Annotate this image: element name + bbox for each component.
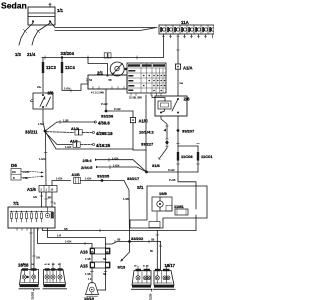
relay 2/6 bbox=[155, 96, 190, 116]
ref 2/5:4 line bbox=[83, 156, 147, 172]
connector 11C4 bbox=[61, 58, 76, 74]
connector fork 21/4 bbox=[27, 23, 50, 57]
connector strip A16 bbox=[80, 248, 110, 262]
svg-text:1-R: 1-R bbox=[57, 234, 61, 238]
svg-text:A16: A16 bbox=[80, 250, 88, 255]
svg-text:4L 58: 4L 58 bbox=[143, 266, 149, 268]
svg-text:33/205: 33/205 bbox=[97, 173, 110, 178]
connector strip A15 bbox=[80, 262, 110, 290]
svg-text:4/268:18: 4/268:18 bbox=[96, 131, 113, 136]
connector pair bridge on 33/204 bbox=[104, 53, 111, 58]
svg-text:11A: 11A bbox=[181, 20, 190, 25]
connector A1/C bbox=[130, 111, 148, 172]
svg-text:31/30: 31/30 bbox=[150, 293, 153, 300]
svg-text:SB: SB bbox=[151, 239, 155, 242]
svg-text:R: R bbox=[54, 203, 56, 206]
svg-text:33/207: 33/207 bbox=[182, 129, 195, 134]
svg-text:1-GN: 1-GN bbox=[65, 145, 71, 149]
svg-text:1.5R: 1.5R bbox=[63, 119, 69, 123]
wires 7/1 down to 18/18 bbox=[30, 228, 40, 269]
svg-text:SB: SB bbox=[117, 239, 121, 242]
fork ref 9/13 bbox=[118, 242, 130, 270]
svg-text:7/1: 7/1 bbox=[13, 201, 19, 206]
svg-text:31 58L 58R: 31 58L 58R bbox=[129, 97, 142, 100]
svg-text:D5: D5 bbox=[11, 163, 17, 168]
svg-text:4/39.8: 4/39.8 bbox=[98, 120, 110, 125]
svg-text:1-GN: 1-GN bbox=[64, 87, 70, 91]
svg-text:SB: SB bbox=[64, 227, 68, 231]
svg-text:Ga: Ga bbox=[180, 81, 184, 85]
svg-text:11C01: 11C01 bbox=[201, 154, 213, 159]
svg-text:1-GN: 1-GN bbox=[112, 156, 118, 160]
svg-text:SB: SB bbox=[103, 273, 107, 276]
svg-text:1-GN: 1-GN bbox=[56, 177, 62, 181]
svg-text:4 1 5 2 54B: 4 1 5 2 54B bbox=[91, 92, 104, 95]
relay 2/6 output to 33/207 bbox=[177, 116, 200, 146]
svg-text:9/13: 9/13 bbox=[118, 265, 127, 270]
branch ref A1/4 4/16:25 bbox=[45, 132, 111, 148]
branch ref A1/A 4/268:18 bbox=[47, 127, 114, 136]
svg-text:11M1: 11M1 bbox=[174, 204, 185, 209]
right feed wire A1/A bbox=[175, 34, 192, 96]
connector 33/227 bbox=[141, 139, 169, 160]
svg-text:GN: GN bbox=[33, 196, 37, 199]
svg-text:1-GN: 1-GN bbox=[65, 240, 71, 244]
svg-text:33/211: 33/211 bbox=[25, 130, 38, 135]
wire node 33/204 bbox=[42, 34, 164, 59]
svg-text:33/202: 33/202 bbox=[131, 236, 144, 241]
wire 11C4 to unit 2/1 bbox=[62, 73, 89, 92]
light switch knob 2/1 bbox=[110, 62, 127, 76]
svg-text:A1/A: A1/A bbox=[183, 66, 193, 71]
wires A1/6 to 7/1 bbox=[33, 192, 56, 207]
svg-text:33/204: 33/204 bbox=[61, 51, 75, 56]
relay 1/1 bbox=[28, 3, 64, 25]
svg-text:GN: GN bbox=[36, 257, 40, 260]
svg-text:33/208: 33/208 bbox=[101, 113, 114, 118]
branch ref 4/39.8 bbox=[45, 119, 110, 132]
connector 11C3 bbox=[42, 58, 57, 93]
svg-text:11C4: 11C4 bbox=[65, 65, 75, 70]
svg-text:19/9: 19/9 bbox=[159, 191, 168, 196]
svg-text:1-GN: 1-GN bbox=[39, 157, 45, 161]
svg-text:P-GR: P-GR bbox=[101, 102, 108, 106]
left lamp cluster 18/18 bbox=[18, 263, 67, 300]
relay 2/6 coil return to 31/6 bbox=[139, 116, 168, 139]
svg-text:33/217: 33/217 bbox=[127, 176, 140, 181]
title Sedan bbox=[1, 0, 27, 10]
svg-text:A15: A15 bbox=[80, 264, 88, 269]
unit 2/1 light switch bbox=[88, 58, 127, 95]
right lamp cluster 18/17 bbox=[132, 263, 176, 300]
wire table to relay 2/6 coil bbox=[152, 95, 165, 101]
svg-text:Sedan: Sedan bbox=[1, 0, 27, 10]
junction 33/217 bbox=[127, 171, 148, 181]
svg-text:2/1: 2/1 bbox=[97, 71, 104, 76]
svg-text:19/19: 19/19 bbox=[84, 296, 95, 300]
svg-text:31/6: 31/6 bbox=[152, 163, 161, 168]
svg-text:1/3: 1/3 bbox=[15, 52, 21, 57]
svg-text:2/44:5: 2/44:5 bbox=[81, 165, 93, 170]
connector 11C08 bbox=[177, 146, 194, 181]
lines from 7/1 to right bbox=[38, 227, 197, 248]
svg-text:1/1: 1/1 bbox=[57, 8, 64, 13]
svg-text:A1/C: A1/C bbox=[139, 119, 149, 124]
svg-text:1-GN: 1-GN bbox=[113, 164, 119, 168]
svg-text:33/227: 33/227 bbox=[141, 142, 154, 147]
svg-text:24+: 24+ bbox=[37, 85, 42, 89]
svg-text:RD: RD bbox=[12, 170, 16, 174]
line 33/205 bbox=[52, 173, 124, 185]
svg-text:1-SB: 1-SB bbox=[85, 273, 91, 276]
legend D5 bbox=[11, 163, 44, 180]
feed wires down to 18/17 bbox=[150, 231, 162, 271]
lamp cluster 7/1 bbox=[8, 201, 55, 231]
connector 11C01 bbox=[197, 146, 214, 172]
svg-text:58: 58 bbox=[109, 78, 112, 82]
junction 33/202 bbox=[106, 236, 161, 244]
svg-text:4L 30: 4L 30 bbox=[45, 264, 51, 266]
ground ref 31/6 bbox=[152, 163, 161, 168]
svg-text:A1/B: A1/B bbox=[72, 173, 81, 177]
svg-text:B: B bbox=[13, 176, 15, 180]
unit S/1 bbox=[130, 185, 207, 231]
svg-text:1-SB: 1-SB bbox=[85, 258, 91, 261]
svg-text:21/4: 21/4 bbox=[27, 52, 36, 57]
svg-text:11C08: 11C08 bbox=[181, 154, 193, 159]
fuse strip 11A bbox=[159, 20, 215, 38]
svg-text:4L 30: 4L 30 bbox=[21, 264, 27, 266]
svg-text:1-SB: 1-SB bbox=[123, 197, 129, 201]
connector fork 1/3 bbox=[15, 23, 33, 57]
ground 19/19 bbox=[84, 278, 106, 300]
svg-text:4/16:25: 4/16:25 bbox=[96, 143, 111, 148]
junction 33/208 bbox=[101, 89, 133, 118]
switch contact table bbox=[127, 63, 166, 100]
svg-text:1-GN: 1-GN bbox=[23, 170, 29, 174]
wire 1/1 to fuse strip 11A bbox=[50, 22, 157, 31]
svg-text:3/8: 3/8 bbox=[48, 91, 54, 96]
stop switch 3/8 bbox=[31, 85, 54, 122]
wire P-GR 33/217 to 11C01 bbox=[147, 168, 199, 172]
svg-text:1-GN: 1-GN bbox=[85, 177, 91, 181]
wire P-GB 11C08 to S/1 bbox=[169, 178, 196, 186]
connector strip A1/6 bbox=[27, 186, 57, 193]
wire 33/211 to 33/217 bbox=[45, 131, 133, 149]
svg-text:SB: SB bbox=[103, 258, 107, 261]
svg-text:BR: BR bbox=[48, 197, 52, 200]
wire 33/211 down to A1/6 bbox=[39, 131, 47, 185]
svg-text:31/302: 31/302 bbox=[32, 291, 35, 299]
wire table to 33/217 bbox=[145, 95, 147, 150]
junction 33/211 bbox=[25, 122, 46, 135]
svg-text:2/6: 2/6 bbox=[184, 97, 191, 102]
ref 2/44:5 line bbox=[81, 164, 147, 172]
svg-text:A1/6: A1/6 bbox=[27, 187, 37, 192]
svg-text:P-GR: P-GR bbox=[114, 107, 121, 111]
wire 33/205 down to 33/202 bbox=[123, 181, 130, 243]
svg-text:54: 54 bbox=[89, 78, 92, 82]
svg-text:10/1/4:2: 10/1/4:2 bbox=[139, 130, 154, 135]
svg-text:1-BR: 1-BR bbox=[23, 176, 29, 180]
svg-text:11C3: 11C3 bbox=[46, 65, 56, 70]
svg-text:P-GR: P-GR bbox=[168, 168, 175, 172]
svg-text:P-GB: P-GB bbox=[169, 178, 176, 182]
svg-text:2/5:4: 2/5:4 bbox=[83, 158, 93, 163]
svg-text:S/1: S/1 bbox=[137, 185, 144, 190]
